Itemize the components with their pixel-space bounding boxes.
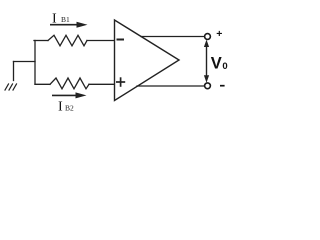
wire output top — [141, 36, 205, 38]
wire top input — [34, 40, 48, 42]
wire ground branch — [14, 61, 36, 63]
wire resistor R2 to op-amp — [89, 83, 114, 85]
wire ground stub — [13, 62, 15, 81]
Vo measurement arrow — [204, 40, 209, 83]
current arrow IB1 — [50, 22, 88, 28]
terminal top — [205, 34, 211, 40]
wire output bottom — [137, 85, 205, 87]
ground — [5, 84, 17, 90]
wire left rail — [34, 41, 36, 85]
op-amp plus input label — [116, 77, 125, 87]
current arrow IB2 — [52, 92, 87, 98]
svg-text:I: I — [52, 11, 57, 26]
terminal bottom — [205, 83, 211, 89]
label minus terminal — [220, 85, 225, 87]
svg-text:+: + — [216, 28, 222, 40]
svg-text:I: I — [58, 99, 63, 114]
wire bottom input — [35, 83, 50, 85]
resistor R2 — [50, 78, 89, 89]
svg-text:B1: B1 — [61, 15, 70, 24]
op-amp U1 — [115, 20, 180, 101]
svg-text:V: V — [211, 54, 222, 72]
wire resistor R1 to op-amp — [87, 40, 114, 42]
resistor R1 — [48, 35, 87, 46]
svg-text:B2: B2 — [65, 103, 74, 112]
op-amp minus input label — [117, 39, 125, 41]
svg-text:0: 0 — [222, 61, 227, 72]
